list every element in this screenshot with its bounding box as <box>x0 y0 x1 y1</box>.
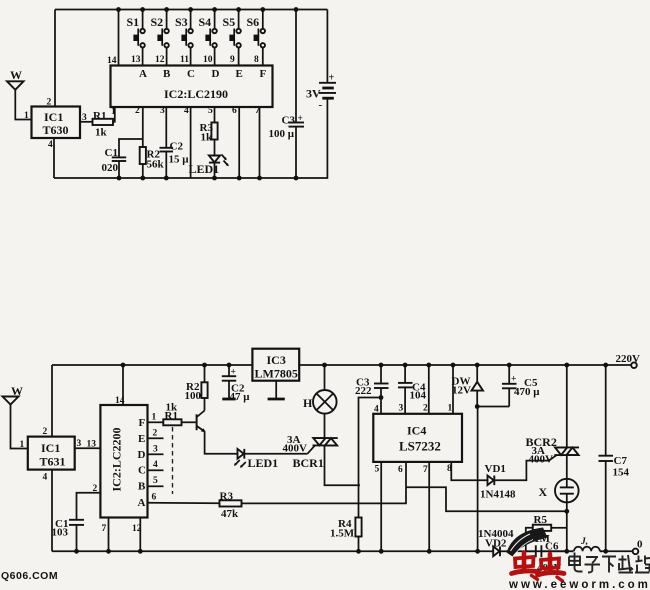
svg-text:LM7805: LM7805 <box>255 367 298 381</box>
svg-text:W: W <box>10 68 22 82</box>
wire R2 to top bus <box>204 365 206 382</box>
svg-text:1: 1 <box>152 413 157 423</box>
svg-text:020: 020 <box>102 162 119 174</box>
capacitor C6 (series in bus) <box>526 541 567 575</box>
wire battery column top <box>326 10 328 83</box>
svg-text:2: 2 <box>43 427 48 437</box>
pin label 14 and wire to bus (IC2 receiver) <box>115 365 125 406</box>
svg-text:A: A <box>139 68 147 80</box>
wire LED1 to bottom bus <box>214 163 216 178</box>
terminal 220V <box>616 353 641 368</box>
wire BCR2 to X <box>566 455 568 479</box>
svg-text:3: 3 <box>399 404 404 414</box>
pin number labels IC2 bottom row <box>111 106 260 117</box>
svg-text:222: 222 <box>355 385 372 397</box>
svg-text:T630: T630 <box>43 123 69 137</box>
svg-text:www.eeworm.com: www.eeworm.com <box>508 579 650 590</box>
switch S1 <box>127 10 145 66</box>
svg-text:6: 6 <box>232 106 237 116</box>
svg-text:Q606.COM: Q606.COM <box>1 570 58 582</box>
junction dot C3/pin4 node <box>379 395 384 400</box>
wire R1 to IC2 pin1 <box>113 107 115 122</box>
resistor R4 1.5M <box>330 518 362 540</box>
IC U2: IC2 LC2200 <box>100 405 147 518</box>
wire IC2 pin2 to C1 (receiver) <box>77 484 101 520</box>
svg-text:13: 13 <box>131 55 141 65</box>
LED LED1 (receiver) <box>234 449 278 470</box>
wire C5 bottom to DW node <box>477 406 509 408</box>
svg-text:2: 2 <box>47 98 52 108</box>
svg-text:1: 1 <box>24 111 29 121</box>
svg-text:10: 10 <box>203 55 213 65</box>
ground symbol under IC3 <box>268 381 285 399</box>
svg-text:S1: S1 <box>127 15 140 29</box>
svg-text:470 μ: 470 μ <box>514 386 540 398</box>
wire top supply bus (transmitter) <box>55 9 327 11</box>
wire IC4 pin6 to X-node link <box>406 487 566 511</box>
diode VD1 1N4148 <box>480 463 516 501</box>
wire IC4 pin7 to bottom bus <box>428 462 430 551</box>
svg-text:154: 154 <box>613 467 630 479</box>
svg-text:C7: C7 <box>614 455 628 467</box>
wire R3 to IC4 pin6 <box>242 462 407 504</box>
junction dots on transmitter bottom bus <box>117 176 299 181</box>
lamp H <box>303 390 337 414</box>
wire IC2 pinA to R3 <box>148 502 220 504</box>
resistor R3 1k (transmitter) <box>200 122 218 144</box>
antenna W (receiver) <box>3 384 28 450</box>
wire emitter down to LED1 row <box>205 432 238 454</box>
wire IC2 pin4 to bottom bus <box>190 107 192 178</box>
wire IC2 pin3 upper <box>165 107 167 148</box>
wire IC2 pin7 to bottom bus <box>259 107 261 178</box>
resistor R1 1k (receiver) <box>163 402 181 426</box>
wire IC2 pinF to R1 <box>148 421 164 423</box>
wire ground/bottom bus (transmitter) <box>54 177 296 179</box>
wire IC1 pin3 to R1 <box>80 121 93 123</box>
svg-text:S5: S5 <box>223 15 236 29</box>
wire IC4 pin5 to bottom bus <box>380 462 382 551</box>
wire IC2 pin12 to bottom bus <box>132 518 142 552</box>
junction dots on receiver top bus <box>121 363 608 368</box>
wire bottom bus right of VD2 <box>506 550 574 552</box>
triac BCR2 3A 400V <box>526 435 580 466</box>
svg-text:IC1: IC1 <box>41 441 60 455</box>
svg-text:1.5M: 1.5M <box>330 528 355 540</box>
wire BCR1 down and to R4 rail <box>325 445 361 485</box>
watermark text dian-zi-xia-zai-zhan <box>569 553 650 573</box>
svg-text:S6: S6 <box>247 15 260 29</box>
triac BCR1 3A 400V <box>283 434 338 470</box>
wire R2 to bottom bus <box>142 164 144 178</box>
svg-text:1: 1 <box>111 107 116 117</box>
wire IC4 pin1 to bus <box>452 365 454 414</box>
svg-text:T631: T631 <box>40 455 66 469</box>
wire IC2 pin6 to bottom bus <box>238 107 240 178</box>
svg-text:100: 100 <box>185 390 202 402</box>
wire IC2 pin7 to bottom bus <box>102 518 109 552</box>
svg-text:D: D <box>212 68 220 80</box>
svg-text:C3: C3 <box>282 115 296 127</box>
IC U2: IC2 LC2190 <box>111 66 273 108</box>
terminal 0 <box>633 539 643 555</box>
svg-text:4: 4 <box>48 140 53 150</box>
capacitor C2 47u (receiver) <box>222 368 250 404</box>
zener diode DW 12V <box>452 365 484 407</box>
capacitor C3 222 (receiver) <box>355 365 389 414</box>
svg-text:VD1: VD1 <box>485 463 506 475</box>
svg-text:S3: S3 <box>175 15 188 29</box>
IC U4: IC4 LS7232 <box>373 404 462 476</box>
wire DW node down to bottom bus <box>477 407 479 552</box>
junction dot X node <box>564 509 569 514</box>
IC U3: IC3 LM7805 <box>252 349 299 381</box>
svg-text:F: F <box>260 68 267 80</box>
wire R3 to LED1 <box>214 140 216 156</box>
junction dots on receiver bottom bus <box>74 549 608 554</box>
switch S5 <box>223 10 241 66</box>
op-amp/IC U1: IC1 T630 <box>32 98 88 151</box>
wire lamp to BCR1 <box>324 414 326 438</box>
svg-text:IC1: IC1 <box>44 110 63 124</box>
svg-text:5: 5 <box>375 465 380 475</box>
svg-text:B: B <box>138 481 146 493</box>
wire IC2 pin5 upper <box>214 107 216 123</box>
diode VD2 1N4004 <box>478 528 514 556</box>
svg-text:9: 9 <box>230 55 235 65</box>
wire X to junction and bottom bus <box>566 502 568 551</box>
wire C3 branch top <box>295 10 297 123</box>
svg-text:A: A <box>138 497 146 509</box>
wire C1 to bottom bus <box>118 161 120 178</box>
svg-text:E: E <box>236 68 243 80</box>
wire IC1 pin4 to bottom bus (receiver) <box>51 470 53 552</box>
svg-text:15 μ: 15 μ <box>169 154 190 166</box>
svg-text:12: 12 <box>155 55 165 65</box>
svg-text:5: 5 <box>153 476 158 486</box>
transistor Q1 <box>197 411 206 433</box>
wire VD1 to BCR2 gate <box>494 461 549 481</box>
svg-text:LS7232: LS7232 <box>399 439 441 454</box>
piezo element X <box>539 479 579 503</box>
svg-text:B: B <box>163 68 171 80</box>
capacitor C3 100u <box>269 114 305 140</box>
svg-text:4: 4 <box>43 473 48 483</box>
svg-text:56k: 56k <box>147 159 165 171</box>
svg-text:IC2:LC2200: IC2:LC2200 <box>110 427 124 491</box>
svg-text:12V: 12V <box>452 385 471 397</box>
wire bottom bus right of coil <box>600 550 633 552</box>
wire left rail from bus to IC1 pin2 <box>54 10 56 107</box>
svg-text:3: 3 <box>153 445 158 455</box>
pin number labels IC2 top row <box>107 55 259 66</box>
wire IC2 pin14 to top bus <box>118 10 120 66</box>
svg-text:220V: 220V <box>616 353 641 365</box>
svg-text:7: 7 <box>102 524 107 534</box>
svg-text:R1: R1 <box>93 110 106 122</box>
resistor R5 1M <box>526 514 567 551</box>
svg-text:F: F <box>139 417 146 429</box>
svg-text:47k: 47k <box>221 508 239 520</box>
svg-text:D: D <box>138 449 146 461</box>
capacitor C1 103 (receiver) <box>52 518 85 539</box>
svg-text:J,: J, <box>580 537 588 547</box>
wire R4 to bottom bus <box>358 537 360 552</box>
svg-text:3: 3 <box>160 106 165 116</box>
watermark red character chong 1 <box>512 553 540 580</box>
inductor L (series in bus) <box>567 537 607 551</box>
wire C2 branch from bus (receiver) <box>228 365 230 376</box>
svg-text:1: 1 <box>20 440 25 450</box>
wire BCR2 branch from bus <box>566 365 568 447</box>
svg-text:4: 4 <box>184 106 189 116</box>
svg-text:H: H <box>303 396 313 410</box>
wire battery column bottom <box>296 98 327 178</box>
switch S4 <box>199 10 217 66</box>
svg-text:2: 2 <box>423 404 428 414</box>
capacitor C1 020 <box>102 147 127 174</box>
LED LED1 (transmitter) <box>189 155 229 177</box>
svg-text:5: 5 <box>208 106 213 116</box>
svg-text:1k: 1k <box>201 132 214 144</box>
svg-text:100 μ: 100 μ <box>269 128 295 140</box>
watermark red character chong 2 <box>538 554 565 581</box>
svg-text:1k: 1k <box>95 127 108 139</box>
switch S6 <box>247 10 265 66</box>
svg-text:47 μ: 47 μ <box>230 391 251 403</box>
svg-text:C: C <box>138 465 146 477</box>
svg-text:C: C <box>187 68 195 80</box>
resistor R2 56k <box>140 147 165 171</box>
pushbutton switches S1-S6 <box>127 10 265 66</box>
wire 220V top bus right section <box>299 364 631 366</box>
wire left rail to IC1 pin2 (receiver) <box>51 365 53 437</box>
capacitor C4 104 <box>398 365 427 414</box>
wire C2 to bottom bus <box>165 152 167 179</box>
resistor R1 1k (transmitter) <box>93 110 114 139</box>
svg-text:6: 6 <box>152 493 157 503</box>
svg-text:BCR1: BCR1 <box>293 456 324 470</box>
battery B1 3V <box>306 73 336 111</box>
svg-text:4: 4 <box>374 405 379 415</box>
svg-text:1N4148: 1N4148 <box>480 489 516 501</box>
lamp H branch wire from bus <box>324 365 326 390</box>
wire C3 to bottom bus <box>295 127 297 178</box>
wire C3 node to R4 rail <box>359 398 382 518</box>
svg-text:IC3: IC3 <box>267 353 286 367</box>
switch S3 <box>175 10 193 66</box>
IC U1: IC1 T631 <box>28 427 82 483</box>
svg-text:8: 8 <box>254 55 259 65</box>
wire LED1 to BCR1 gate <box>244 453 307 455</box>
svg-text:LED1: LED1 <box>248 456 279 470</box>
capacitor C7 154 <box>599 365 630 551</box>
svg-text:11: 11 <box>180 55 189 65</box>
junction dots on transmitter top bus <box>116 7 298 12</box>
wire IC4 pin8 to VD1 <box>451 462 487 480</box>
wire 220V top bus left section <box>52 364 252 366</box>
svg-text:2: 2 <box>135 106 140 116</box>
junction dot DW/C5 node <box>475 404 480 409</box>
capacitor C5 470u <box>502 365 540 407</box>
svg-text:IC4: IC4 <box>407 424 426 438</box>
dashed separator line <box>172 427 174 494</box>
svg-text:6: 6 <box>398 465 403 475</box>
wire C1 branch from node <box>119 139 143 157</box>
wire collector to R2 <box>204 398 206 411</box>
svg-text:E: E <box>138 433 145 445</box>
svg-text:X: X <box>539 485 548 499</box>
wire IC1 pin3 to IC2 pin13 <box>75 447 101 449</box>
svg-text:S4: S4 <box>199 15 212 29</box>
wire ground/bottom bus (receiver) <box>52 550 489 552</box>
svg-text:IC2:LC2190: IC2:LC2190 <box>164 87 228 101</box>
capacitor C2 15u <box>160 141 190 166</box>
svg-text:104: 104 <box>410 390 427 402</box>
svg-text:1: 1 <box>448 404 453 414</box>
svg-text:-: - <box>319 99 323 111</box>
wire IC2 pin2 upper <box>142 107 144 147</box>
wire C1 to bottom bus (receiver) <box>76 525 78 551</box>
svg-text:400V: 400V <box>283 443 308 455</box>
resistor R3 47k (receiver) <box>220 491 242 521</box>
svg-text:0: 0 <box>637 539 643 551</box>
antenna W (transmitter) <box>7 68 32 121</box>
switch S2 <box>151 10 169 66</box>
wire IC4 pin2 to bus <box>428 365 430 414</box>
IC2 right-side pin stubs 2-5 with numbers <box>148 413 164 503</box>
resistor R2 100 <box>185 381 208 402</box>
watermark logo swoosh <box>507 528 548 557</box>
svg-text:+: + <box>329 73 335 84</box>
svg-text:103: 103 <box>52 527 69 539</box>
wire IC1 pin4 to bottom bus <box>53 138 55 178</box>
svg-text:2: 2 <box>153 429 158 439</box>
svg-text:14: 14 <box>107 56 117 66</box>
svg-text:13: 13 <box>87 440 97 450</box>
svg-text:7: 7 <box>423 465 428 475</box>
svg-text:S2: S2 <box>151 15 164 29</box>
svg-text:4: 4 <box>153 460 158 470</box>
wire R1 to transistor base <box>182 421 197 423</box>
